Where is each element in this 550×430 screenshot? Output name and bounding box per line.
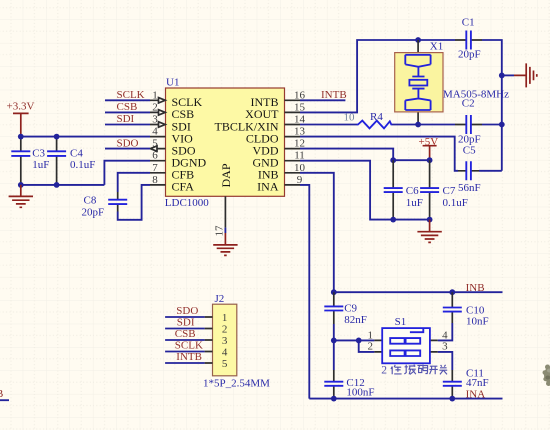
- svg-text:4: 4: [152, 126, 158, 138]
- capacitor C4 plates: [47, 151, 66, 156]
- svg-text:J2: J2: [215, 293, 225, 305]
- crystal X1 body: [395, 53, 443, 112]
- capacitor C4 leads: [56, 137, 58, 185]
- svg-text:CFA: CFA: [172, 180, 195, 194]
- ground under C3: [9, 185, 33, 207]
- wire CLDO to C5: [300, 137, 458, 171]
- junction dot C7 bottom: [427, 217, 433, 223]
- wire SDI: [105, 124, 150, 126]
- svg-text:INA: INA: [466, 388, 486, 400]
- ground under C7: [417, 220, 441, 243]
- svg-text:1*5P_2.54MM: 1*5P_2.54MM: [203, 377, 270, 389]
- capacitor C2 leads: [455, 124, 482, 126]
- svg-text:U1: U1: [166, 76, 179, 88]
- svg-text:3: 3: [442, 341, 448, 353]
- capacitor C12 plates: [324, 382, 343, 386]
- junction dot C9 / S1: [331, 338, 337, 344]
- svg-text:1: 1: [368, 329, 374, 341]
- svg-text:2: 2: [381, 365, 387, 377]
- svg-text:1: 1: [152, 89, 158, 101]
- svg-text:+3.3V: +3.3V: [7, 101, 35, 113]
- crystal X1 pins: [417, 40, 419, 124]
- svg-text:C8: C8: [84, 195, 97, 207]
- wire J2 pin3: [165, 339, 205, 341]
- svg-text:MA505-8MHz: MA505-8MHz: [443, 88, 509, 100]
- wire SCLK: [105, 99, 150, 101]
- capacitor C8 leads: [117, 192, 119, 212]
- svg-text:C9: C9: [344, 303, 357, 315]
- capacitor C1 leads: [455, 39, 482, 41]
- wire C8 to CFA: [118, 185, 150, 220]
- crystal X1 symbol: [405, 55, 430, 110]
- svg-text:82nF: 82nF: [344, 314, 367, 326]
- capacitor C8 plates: [108, 200, 127, 204]
- svg-text:17: 17: [214, 225, 226, 237]
- wire VDD jog: [300, 149, 430, 161]
- capacitor C1 plates: [466, 31, 471, 50]
- wire C12 down: [333, 340, 335, 370]
- svg-text:C1: C1: [462, 17, 475, 29]
- wire INA rail: [309, 398, 502, 400]
- junction dot C12 / INA rail: [331, 396, 337, 402]
- junction dots left rails: [18, 134, 24, 140]
- capacitor C6 plates: [384, 188, 403, 192]
- svg-text:DAP: DAP: [219, 163, 233, 187]
- junction dot INB / C9: [331, 289, 337, 295]
- wire C2 to rail: [482, 124, 502, 126]
- svg-text:LDC1000: LDC1000: [165, 197, 210, 209]
- svg-text:SCLK: SCLK: [117, 89, 145, 101]
- svg-text:1: 1: [222, 312, 228, 324]
- wire C10 to S1 pin4: [438, 323, 453, 340]
- wire INTB pin16: [300, 99, 345, 101]
- pin 2 input arrow: [159, 110, 166, 115]
- capacitor C6 leads: [392, 160, 394, 219]
- svg-text:5: 5: [152, 138, 158, 150]
- switch S1 rockers: [390, 338, 420, 356]
- op-amp U1 body: [166, 88, 285, 196]
- svg-text:SDI: SDI: [177, 317, 195, 329]
- capacitor C11 leads: [451, 370, 453, 399]
- U1 left pin stubs: [150, 100, 166, 185]
- wire XOUT up and top rail: [300, 40, 455, 112]
- svg-text:5: 5: [222, 358, 228, 370]
- svg-text:C4: C4: [70, 147, 83, 159]
- switch S1 pin stubs: [374, 340, 437, 352]
- svg-text:INTB: INTB: [176, 351, 202, 363]
- wire R4 to crystal bottom and C2: [392, 124, 455, 126]
- svg-text:B: B: [0, 388, 3, 400]
- wire TBCLK to R4: [300, 124, 357, 126]
- pin 1 input arrow: [159, 98, 166, 103]
- svg-text:1uF: 1uF: [32, 159, 49, 171]
- capacitor C7 plates: [420, 188, 439, 192]
- junction dot C6 bottom: [390, 217, 396, 223]
- wire INB rail: [334, 291, 503, 293]
- wire S1 pin2 riser: [359, 340, 375, 352]
- svg-text:0.1uF: 0.1uF: [70, 159, 95, 171]
- pin 5 output arrow: [150, 146, 157, 151]
- svg-text:INA: INA: [257, 180, 279, 194]
- svg-text:0.1uF: 0.1uF: [443, 197, 468, 209]
- svg-text:20pF: 20pF: [458, 49, 481, 61]
- pin 17 DAP stub: [224, 196, 226, 227]
- gray blob artifact right edge: [543, 365, 550, 387]
- svg-text:20pF: 20pF: [82, 206, 105, 218]
- capacitor C10 plates: [443, 308, 462, 312]
- svg-text:+5V: +5V: [419, 136, 439, 148]
- crystal body rect: [409, 80, 427, 86]
- svg-text:3: 3: [222, 335, 228, 347]
- svg-text:1uF: 1uF: [406, 197, 423, 209]
- svg-text:INTB: INTB: [321, 89, 347, 101]
- wire DGND down: [104, 161, 150, 185]
- svg-text:C6: C6: [406, 185, 419, 197]
- junction dot top wire / crystal: [415, 37, 421, 43]
- junction dot rail / earth: [499, 73, 505, 79]
- svg-text:INB: INB: [466, 282, 485, 294]
- wire DAP to ground: [224, 228, 226, 233]
- J2 pin stubs: [205, 317, 213, 363]
- svg-text:SCLK: SCLK: [175, 340, 203, 352]
- svg-text:S1: S1: [395, 316, 407, 328]
- power +5V symbol: [423, 146, 437, 161]
- svg-text:R4: R4: [370, 111, 383, 123]
- svg-text:4: 4: [442, 329, 448, 341]
- wire ground rail: [21, 184, 105, 186]
- wire stub to earth: [502, 74, 514, 76]
- wire INA pin9 down: [300, 185, 309, 399]
- glyph ma: [417, 365, 428, 374]
- svg-text:SDI: SDI: [117, 113, 135, 125]
- U1 right pin stubs: [285, 100, 301, 185]
- earth ground right (rotated): [514, 63, 537, 87]
- svg-text:C3: C3: [32, 147, 45, 159]
- wire S1 pin1 rail: [334, 339, 375, 341]
- wire J2 pin2: [165, 328, 205, 330]
- svg-text:CSB: CSB: [117, 101, 138, 113]
- wire CFB to C8: [118, 173, 150, 192]
- capacitor C5 leads: [458, 170, 479, 172]
- svg-text:4: 4: [222, 347, 228, 359]
- svg-text:2: 2: [222, 324, 228, 336]
- junction dot C2 / rail: [499, 122, 505, 128]
- capacitor C10 leads: [451, 292, 453, 323]
- svg-text:56nF: 56nF: [458, 182, 481, 194]
- glyph kai: [429, 366, 437, 374]
- S1 comment 2-bit DIP switch (CJK strokes): [381, 365, 447, 377]
- capacitor C2 plates: [466, 115, 471, 134]
- svg-text:47nF: 47nF: [466, 377, 489, 389]
- junction dot INB / C10: [449, 289, 455, 295]
- ground under DAP: [213, 233, 237, 255]
- junction dot VDD / C6: [390, 157, 396, 163]
- glyph wei: [391, 365, 402, 374]
- svg-text:2: 2: [368, 341, 374, 353]
- capacitor C11 plates: [443, 382, 462, 386]
- capacitor C9 leads: [333, 292, 335, 324]
- junction dot crystal bottom: [415, 122, 421, 128]
- wire C5 to rail: [479, 170, 502, 172]
- glyph bo: [404, 365, 415, 375]
- capacitor C12 leads: [333, 370, 335, 399]
- junction dot pin2 riser: [356, 338, 362, 344]
- wire GND pin11 to bottom rail: [300, 161, 430, 220]
- svg-text:10: 10: [344, 112, 356, 124]
- wire SDO: [105, 148, 150, 150]
- svg-text:6: 6: [152, 150, 158, 162]
- junction dot C11 / INA rail: [449, 396, 455, 402]
- switch S1 body: [382, 328, 430, 363]
- junction dot +5V / C7: [427, 157, 433, 163]
- svg-text:10nF: 10nF: [466, 315, 489, 327]
- svg-text:SDO: SDO: [117, 137, 139, 149]
- svg-text:C2: C2: [462, 97, 475, 109]
- power +3.3V symbol: [13, 113, 29, 136]
- svg-text:C7: C7: [443, 185, 456, 197]
- svg-text:C5: C5: [463, 145, 476, 157]
- capacitor C9 plates: [324, 306, 343, 310]
- svg-text:2: 2: [152, 101, 158, 113]
- glyph guan: [439, 365, 447, 375]
- wire INB pin10 down: [300, 173, 334, 292]
- svg-text:SDO: SDO: [176, 305, 198, 317]
- switch S1 actuator mark: [410, 329, 423, 333]
- svg-text:100nF: 100nF: [346, 387, 374, 399]
- capacitor C7 leads: [429, 160, 431, 219]
- capacitor C3 plates: [11, 151, 30, 156]
- resistor R4: [357, 121, 392, 129]
- wire VIO rail: [21, 136, 150, 138]
- wire J2 pin4: [165, 351, 205, 353]
- wire fragment bottom left: [0, 399, 9, 401]
- wire J2 pin1: [165, 316, 205, 318]
- pin 3 input arrow: [159, 122, 166, 127]
- svg-text:8: 8: [152, 174, 158, 186]
- capacitor C3 leads: [20, 137, 22, 185]
- svg-text:X1: X1: [430, 41, 443, 53]
- connector J2 body: [213, 304, 237, 376]
- wire J2 pin5: [165, 362, 205, 364]
- wire C9 to S1 rail: [333, 324, 335, 340]
- svg-text:3: 3: [152, 114, 158, 126]
- svg-text:7: 7: [152, 162, 158, 174]
- svg-text:CSB: CSB: [175, 328, 196, 340]
- capacitor C5 plates: [466, 161, 471, 180]
- wire C1 to right rail: [482, 40, 502, 171]
- wire CSB: [105, 111, 150, 113]
- wire S1 pin3 to C11: [438, 352, 453, 370]
